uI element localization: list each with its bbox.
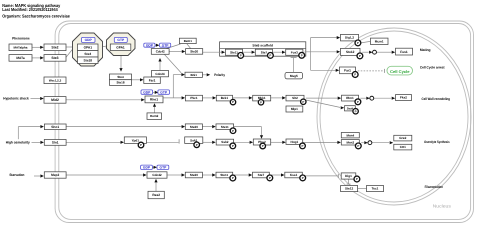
state label GDP near Rho1 — [141, 90, 153, 94]
svg-text:Organism: Saccharomyces cerevi: Organism: Saccharomyces cerevisiae — [2, 13, 70, 18]
wire Cdc42 to Ste20 — [169, 51, 182, 53]
wire Bni1 to Polarity — [203, 74, 207, 76]
gene box Slt2 — [286, 95, 304, 101]
svg-text:Cell Wall remodeling: Cell Wall remodeling — [422, 97, 451, 101]
wire Pbs2 to Hog1 — [271, 141, 283, 143]
svg-text:Ste20: Ste20 — [190, 50, 198, 54]
gene box Swi4 — [345, 106, 356, 111]
transcription circle osmolyte — [368, 141, 372, 145]
svg-text:GDP: GDP — [146, 43, 154, 47]
gene box Ste20 — [186, 49, 203, 55]
gene box Wsc1,2,3 — [44, 77, 66, 84]
state label GTP on complex — [114, 37, 127, 42]
phosphorylation P on Pbs2 — [260, 143, 266, 149]
phosphorylation P on Ste12 — [357, 53, 363, 59]
wire Ste2 to G protein octagon — [66, 46, 73, 48]
svg-text:Pkc1: Pkc1 — [190, 96, 198, 100]
wire Ssk2 to Pbs2 — [234, 141, 250, 143]
svg-text:Msn2: Msn2 — [346, 140, 354, 144]
svg-text:Hypotonic shock: Hypotonic shock — [3, 97, 28, 101]
svg-text:Ste20: Ste20 — [190, 125, 198, 129]
svg-text:GDP: GDP — [143, 165, 151, 169]
wire Slt2 to Rlm1 — [306, 97, 338, 99]
gene box Ste11 (filamentation) — [216, 172, 233, 178]
svg-text:P: P — [232, 176, 234, 180]
gene box Sho1 receptor — [44, 124, 66, 130]
svg-text:P: P — [357, 100, 359, 104]
svg-text:Fus3: Fus3 — [291, 50, 298, 54]
wire Ste7 to Fus3 — [273, 51, 283, 53]
svg-text:P: P — [269, 53, 271, 57]
svg-text:GPA1: GPA1 — [84, 45, 93, 49]
svg-text:Mcm1: Mcm1 — [375, 39, 384, 43]
svg-text:Ypd1: Ypd1 — [132, 138, 140, 142]
svg-text:Dig1: Dig1 — [345, 174, 352, 178]
wire GDP to GTP filamentation — [152, 166, 154, 168]
transcription circle mating — [373, 50, 377, 54]
state label GDP on complex — [82, 37, 96, 42]
gene box Ras2 — [148, 191, 164, 198]
gene box Ste4 (trimer) — [78, 51, 99, 58]
phosphorylation P on Ste11 HOG — [230, 128, 236, 134]
wire Ste3 to G protein octagon — [66, 50, 72, 58]
activated G alpha complex octagon (GTP) — [107, 33, 136, 56]
svg-text:Fks2: Fks2 — [400, 96, 407, 100]
wire Ras2 up to Cdc42 — [155, 182, 157, 191]
wire GDP to GTP cellwall — [153, 91, 155, 93]
phosphorylation P on Swi4 — [353, 109, 358, 114]
svg-text:P: P — [302, 144, 304, 148]
svg-text:GDP: GDP — [143, 90, 151, 94]
wire Dig1,2 to Mcm1 — [360, 41, 370, 43]
svg-text:P: P — [232, 100, 234, 104]
svg-text:P: P — [232, 144, 234, 148]
svg-text:Ste3: Ste3 — [51, 56, 58, 60]
nucleus outer ellipse — [317, 28, 471, 205]
phosphorylation P on Kss1 — [300, 175, 306, 181]
wire Msg5 inhibits Fus3 — [293, 58, 295, 73]
wire Ste12 transcription to Fus1 — [362, 51, 368, 53]
svg-text:Msg5: Msg5 — [290, 74, 298, 78]
wire Sho1 to Ste20 — [66, 126, 182, 128]
phosphorylation P on Rlm1 — [355, 99, 361, 105]
gene box Dig1 — [341, 173, 356, 179]
phosphorylation P on Mkk1 — [258, 100, 263, 105]
gene box Bni1 — [185, 72, 202, 77]
svg-text:P: P — [302, 100, 304, 104]
svg-text:Far1: Far1 — [149, 78, 156, 82]
svg-text:Cell Cycle: Cell Cycle — [390, 69, 410, 74]
gene box Cdc42 — [151, 49, 169, 55]
gene box Mlp1 — [286, 106, 303, 112]
wire Ste20 to Ste11 fil — [202, 174, 212, 176]
svg-text:GTP: GTP — [162, 43, 170, 47]
svg-text:Dig1,2: Dig1,2 — [345, 36, 354, 40]
svg-text:Cell Cycle arrest: Cell Cycle arrest — [420, 65, 446, 69]
svg-text:P: P — [262, 144, 264, 148]
gene box Ssk1 — [185, 137, 203, 144]
gene box Cdc42 (filamentation) — [147, 172, 167, 178]
wire MATalpha to Ste2 — [32, 46, 41, 48]
gene box Mcm1 — [371, 38, 389, 44]
svg-text:Last Modified: 20210520111944: Last Modified: 20210520111944 — [2, 7, 58, 12]
svg-text:Rom2: Rom2 — [150, 114, 159, 118]
wire high osmolarity elbow to Sho1 — [17, 127, 19, 140]
gene box Ste3 receptor — [44, 55, 66, 62]
gene box Ste7 (scaffold) — [255, 49, 272, 55]
svg-text:Ste11: Ste11 — [230, 50, 238, 54]
transcription circle cell wall — [370, 96, 374, 100]
wire Rho1 to Pkc1 — [163, 97, 182, 99]
Ste5 scaffold container box — [220, 42, 306, 56]
svg-text:Sln1: Sln1 — [52, 141, 59, 145]
wire Mep2 to Cdc42 — [66, 174, 143, 176]
gene box Fus1 — [396, 48, 413, 55]
gene box Kss1 — [285, 172, 303, 178]
gene box Rom2 — [147, 113, 162, 120]
svg-text:Slt2: Slt2 — [292, 96, 298, 100]
phosphorylation P on Far1 — [352, 72, 358, 78]
svg-text:Far1: Far1 — [344, 69, 351, 73]
wire Bck1 to Mkk1 — [233, 97, 250, 99]
gene box Bem1 — [179, 38, 196, 43]
svg-text:P: P — [357, 144, 359, 148]
svg-text:Polarity: Polarity — [214, 73, 225, 77]
cell membrane inner line — [59, 24, 471, 220]
gene box Fks2 — [396, 95, 412, 101]
svg-text:High osmolarity: High osmolarity — [6, 140, 30, 144]
phosphorylation P on Ssk1 — [194, 142, 200, 148]
wire Msn2 transcription to targets — [361, 142, 364, 144]
svg-text:Gre2: Gre2 — [399, 136, 406, 140]
wire Rom2 up to Rho1 — [154, 106, 156, 113]
gene box Fus3 (scaffold) — [286, 49, 303, 55]
gene box Ssk2 — [216, 139, 233, 145]
gene box MATalpha — [9, 44, 32, 51]
phosphorylation P on Bck1 — [230, 99, 235, 104]
svg-text:GTP: GTP — [117, 38, 125, 42]
gene box Ste12 (mating) — [341, 48, 361, 55]
wire Pkc1 to Bck1 — [203, 97, 213, 99]
gene box Mkk1 — [253, 95, 271, 101]
gene box MATa — [9, 55, 32, 62]
svg-text:Bem1: Bem1 — [184, 39, 193, 43]
wire Starvation to Mep2 — [34, 175, 40, 177]
wire octagon GDP to octagon GTP — [103, 46, 106, 48]
svg-text:Rlm1: Rlm1 — [346, 96, 354, 100]
wire Cdc42 to Bem1 — [167, 44, 181, 49]
gene box Msn2 — [341, 140, 359, 145]
gene box Ctt1 — [394, 144, 412, 150]
wire Bem1 to Ste20 — [187, 44, 191, 49]
svg-text:Ste5 scaffold: Ste5 scaffold — [252, 44, 273, 48]
svg-text:P: P — [356, 177, 358, 181]
wire Slt2 to Swi4 — [306, 100, 340, 107]
svg-text:Nucleus: Nucleus — [433, 203, 452, 208]
svg-text:Cdc24: Cdc24 — [155, 72, 165, 76]
state label GTP near Cdc42 — [160, 43, 171, 47]
svg-text:P: P — [196, 143, 198, 147]
nucleus inner ellipse — [320, 31, 468, 202]
svg-text:Filamentation: Filamentation — [425, 185, 443, 189]
wire Mkk1 to Slt2 — [271, 97, 283, 99]
svg-text:P: P — [269, 176, 271, 180]
wire Rho1 branch up to Bni1 — [172, 75, 174, 98]
svg-text:Rho1: Rho1 — [150, 98, 158, 102]
wire Rlm1 transcription to Fks2 — [360, 97, 366, 99]
gene box Ste12 (filamentation) — [341, 186, 358, 192]
wire Gpa2 octagon down to Ste4/Ste18 — [120, 56, 122, 69]
svg-text:Tec1: Tec1 — [372, 187, 379, 191]
wire Sln1 to Ypd1 — [66, 141, 121, 143]
svg-text:Mating: Mating — [420, 48, 431, 52]
phosphorylation P on Ssk2 — [230, 143, 236, 149]
gene box Ste18 (trimer) — [78, 57, 99, 64]
wire MATa to Ste3 — [32, 57, 41, 59]
gene box Sln1 receptor — [44, 140, 66, 146]
svg-text:Wsc1,2,3: Wsc1,2,3 — [49, 78, 62, 82]
svg-text:Cdc42: Cdc42 — [156, 50, 165, 54]
svg-text:MATa: MATa — [16, 56, 24, 60]
phosphorylation P on Ste7 — [268, 53, 274, 59]
svg-text:Sho1: Sho1 — [51, 125, 59, 129]
phosphorylation P on Dig1,2 — [355, 40, 361, 46]
gene box Cdc24 — [152, 71, 169, 77]
wire Ste11 to Ste7 — [243, 51, 252, 53]
svg-text:P: P — [240, 53, 242, 57]
gene box Rlm1 — [342, 95, 359, 101]
wire Kss1 inhibits Dig1 — [302, 175, 338, 177]
wire Ste11 to Ste7 fil — [233, 174, 249, 176]
gene box Msn4 — [341, 133, 359, 138]
gene box Ste18 (released) — [110, 80, 132, 86]
svg-text:Ste12: Ste12 — [346, 50, 355, 54]
wire Ste11 elbow down to Pbs2 — [234, 126, 262, 128]
phosphorylation P on Hog1 — [300, 143, 306, 149]
gene box Hog1 — [286, 139, 303, 144]
G protein trimer complex octagon (GDP) — [73, 33, 103, 66]
wire GDP to GTP pheromone — [155, 44, 157, 46]
wire Ste12 to Tec1 — [358, 188, 367, 190]
phosphorylation P on Ste11 fil — [230, 175, 236, 181]
svg-text:Ste7: Ste7 — [258, 173, 265, 177]
svg-text:Bck1: Bck1 — [221, 96, 229, 100]
gene box Gre2 — [394, 135, 412, 141]
gene box Bck1 — [216, 95, 232, 101]
gene box Pkc1 — [185, 95, 202, 101]
gene box GPA1 (active) — [110, 44, 131, 51]
svg-text:P: P — [355, 109, 357, 113]
svg-text:P: P — [359, 54, 361, 58]
gene box Msg5 — [285, 72, 303, 79]
svg-text:Ras2: Ras2 — [152, 193, 160, 197]
wire high osmolarity to Sln1 — [32, 141, 41, 143]
gene box Tec1 — [367, 186, 384, 192]
svg-text:Ste18: Ste18 — [84, 58, 93, 62]
gene box Ste20 (filamentation) — [185, 172, 202, 178]
svg-text:Osmolyte Synthesis: Osmolyte Synthesis — [424, 140, 450, 144]
svg-text:Pheromone: Pheromone — [12, 36, 30, 40]
wire Ste7 to Kss1 — [269, 174, 281, 176]
svg-text:Kss1: Kss1 — [290, 173, 298, 177]
wire Ste20 to Ste11 scaffold — [203, 51, 222, 53]
state label GDP near Cdc42 fil — [141, 165, 153, 169]
svg-text:Msn4: Msn4 — [346, 133, 354, 137]
gene box Pbs2 — [253, 139, 270, 145]
wire Ste4/Ste18 to Far1 — [132, 79, 141, 81]
svg-text:Mep2: Mep2 — [51, 173, 59, 177]
svg-text:Mid2: Mid2 — [51, 98, 59, 102]
svg-text:P: P — [140, 143, 142, 147]
svg-text:Hog1: Hog1 — [291, 140, 299, 144]
svg-text:Ste11: Ste11 — [220, 173, 228, 177]
Cell Cycle process box — [387, 66, 413, 75]
svg-text:Bni1: Bni1 — [190, 73, 197, 77]
svg-text:Fus1: Fus1 — [400, 50, 408, 54]
phosphorylation P on Ste11 — [238, 53, 244, 59]
svg-text:P: P — [301, 53, 303, 57]
svg-text:P: P — [354, 73, 356, 77]
svg-text:GTP: GTP — [160, 90, 168, 94]
svg-text:P: P — [302, 176, 304, 180]
svg-text:Ste12: Ste12 — [345, 187, 354, 191]
svg-text:GDP: GDP — [85, 38, 93, 42]
wire Hypotonic shock to Mid2 — [31, 98, 41, 100]
svg-text:Swi4: Swi4 — [347, 106, 354, 110]
svg-text:GTP: GTP — [160, 165, 168, 169]
wire Mid2 to Rho1 — [66, 99, 141, 101]
wire Ssk1 to Ssk2 — [203, 141, 212, 143]
svg-text:Cdc42: Cdc42 — [152, 173, 162, 177]
wire Far1 inhibits Cell Cycle (dashed) — [358, 70, 384, 72]
wire Fus3 to nuclear factors elbow — [310, 38, 312, 71]
wire Cdc24 up to Cdc42 — [159, 61, 161, 71]
gene box Ste20 (HOG) — [185, 124, 202, 130]
phosphorylation P on Msn2 — [355, 143, 361, 149]
phosphorylation P on Fus3 — [299, 52, 305, 58]
phosphorylation P on Ypd1 — [138, 142, 144, 148]
svg-text:Ste4: Ste4 — [84, 52, 91, 56]
wire Hog1 to Msn2 — [303, 141, 338, 143]
gene box Mep2 receptor — [44, 172, 66, 178]
svg-text:Ste4: Ste4 — [117, 75, 124, 79]
svg-text:Starvation: Starvation — [9, 173, 24, 177]
wire Cdc42 to Ste20 fil — [167, 174, 182, 176]
svg-text:Ste11: Ste11 — [221, 125, 229, 129]
gene box Far1 — [144, 77, 161, 84]
gene box Ste11 (HOG) — [216, 124, 234, 130]
cell membrane outer line (rounded rect) — [55, 21, 473, 223]
phosphorylation P on Dig1 — [354, 176, 360, 182]
svg-text:P: P — [357, 41, 359, 45]
svg-text:Ste18: Ste18 — [116, 81, 124, 85]
svg-text:Ctt1: Ctt1 — [400, 145, 406, 149]
svg-text:Ste7: Ste7 — [261, 50, 268, 54]
state label GTP near Rho1 — [158, 90, 170, 94]
wire Cdc42 to Bni1 — [165, 55, 182, 73]
svg-text:P: P — [260, 100, 262, 104]
phosphorylation P on Slt2 — [301, 99, 306, 104]
state label GDP near Cdc42 — [144, 43, 155, 47]
svg-text:Ste20: Ste20 — [190, 173, 198, 177]
gene box Far1 (nuclear) — [340, 67, 356, 74]
gene box Rho1 — [145, 96, 163, 103]
wire Dig1 inhibits Ste12 — [348, 179, 350, 183]
svg-text:Ssk2: Ssk2 — [221, 140, 229, 144]
gene box GPA1 (trimer) — [78, 44, 99, 51]
gene box Dig1,2 — [341, 34, 359, 41]
gene box Mid2 receptor — [44, 97, 66, 104]
wire Ste20 to Ste11 hog — [202, 126, 212, 128]
gene box Ste4 (released) — [110, 74, 132, 80]
gene box Ste2 receptor — [44, 44, 66, 51]
phosphorylation P on Ste7 fil — [267, 175, 273, 181]
svg-text:MATalpha: MATalpha — [14, 45, 28, 49]
gene box Ypd1 — [124, 137, 146, 144]
gene box Ste7 (filamentation) — [253, 172, 270, 178]
svg-text:Ste2: Ste2 — [51, 46, 58, 50]
state label GTP near Cdc42 fil — [157, 165, 169, 169]
svg-text:GPA1: GPA1 — [116, 45, 125, 49]
svg-text:P: P — [232, 129, 234, 133]
wire Ypd1 inhibits Ssk1 — [146, 141, 178, 143]
gene box Ste11 (scaffold) — [225, 49, 242, 55]
svg-text:Mlp1: Mlp1 — [291, 107, 298, 111]
